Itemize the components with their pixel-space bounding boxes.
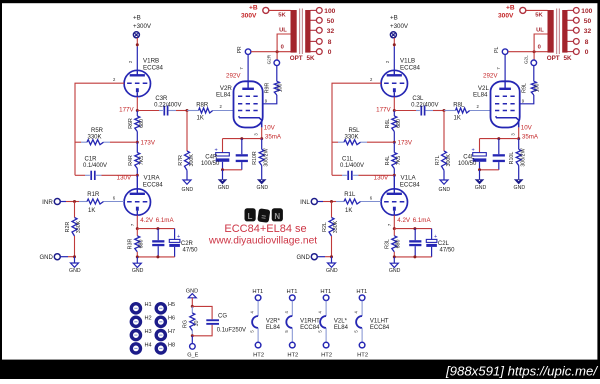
ground symbol (R10R)	[258, 180, 266, 184]
svg-text:INL: INL	[300, 199, 310, 206]
pentode V2L EL84	[491, 81, 520, 127]
svg-text:H2: H2	[145, 316, 152, 322]
ground symbol (R7L)	[440, 180, 448, 184]
svg-text:ECC84: ECC84	[143, 64, 164, 71]
logo square 2	[257, 208, 270, 223]
svg-text:300K: 300K	[189, 154, 195, 167]
ground terminal GND (R input)	[54, 254, 60, 260]
power terminal +B +300V (L channel)	[390, 32, 396, 38]
svg-text:35mA: 35mA	[265, 133, 282, 140]
svg-text:6.1mA: 6.1mA	[413, 217, 432, 224]
ground symbol (C4L)	[479, 170, 481, 180]
svg-text:R6R: R6R	[128, 118, 134, 129]
svg-text:R8R: R8R	[196, 102, 209, 108]
svg-text:0: 0	[585, 49, 589, 56]
svg-text:47/50: 47/50	[440, 248, 456, 254]
wire pentode cathode rail	[223, 138, 262, 140]
svg-text:GND: GND	[389, 268, 401, 274]
secondary taps	[568, 9, 574, 11]
svg-text:680: 680	[139, 119, 145, 128]
svg-text:V2L*: V2L*	[334, 318, 348, 324]
logo square 3	[272, 208, 283, 221]
svg-text:R7R: R7R	[178, 155, 184, 166]
wire pentode cathode rail	[480, 138, 519, 140]
junction RG bottom	[191, 334, 194, 337]
heater pad H2	[131, 317, 140, 326]
node V1RA cathode	[136, 227, 139, 230]
resistor RG 10	[191, 306, 193, 313]
resistor R9L 100	[533, 66, 535, 82]
svg-text:R10L: R10L	[509, 152, 515, 165]
resistor R1L 1K	[317, 201, 323, 203]
svg-text:173V: 173V	[398, 140, 413, 147]
svg-text:C3R: C3R	[155, 96, 168, 102]
svg-text:R1R: R1R	[87, 192, 100, 198]
svg-text:100: 100	[581, 8, 592, 15]
wire cathode RC top rail	[137, 228, 174, 230]
svg-text:680: 680	[396, 240, 402, 249]
svg-text:HT1: HT1	[252, 289, 263, 295]
svg-text:R3L: R3L	[385, 239, 391, 249]
svg-text:GND: GND	[39, 255, 53, 261]
wire +B to V1LB plate	[393, 38, 395, 47]
resistor R5L 330K	[332, 141, 338, 143]
svg-text:100/50: 100/50	[201, 161, 220, 167]
svg-text:R7L: R7L	[435, 155, 441, 165]
watermark bar	[0, 360, 600, 379]
wire plate to OPT 0 tap	[251, 51, 290, 53]
svg-text:0: 0	[281, 45, 284, 51]
svg-text:R4R: R4R	[128, 155, 134, 166]
svg-text:R5R: R5R	[91, 128, 104, 134]
svg-text:GND: GND	[69, 268, 81, 274]
svg-text:1K: 1K	[88, 208, 95, 214]
svg-text:H3: H3	[145, 329, 152, 335]
svg-text:C1L: C1L	[342, 156, 354, 162]
svg-text:1K: 1K	[345, 208, 352, 214]
wire V1LB grid to feedback node	[332, 83, 381, 175]
ground symbol (input)	[74, 257, 76, 263]
junction UL/0	[533, 50, 536, 53]
heater pad H6	[156, 317, 165, 326]
svg-text:HT2: HT2	[321, 352, 332, 358]
svg-text:+: +	[434, 234, 437, 240]
capacitor C4L 100/50 electrolytic	[473, 153, 487, 156]
svg-text:+: +	[215, 147, 218, 153]
junction C3L/R7L	[443, 109, 446, 112]
svg-text:330K: 330K	[87, 134, 101, 140]
svg-text:6.1mA: 6.1mA	[156, 217, 175, 224]
triode V1LB ECC84 (upper)	[381, 70, 407, 96]
svg-text:0.22/400V: 0.22/400V	[411, 102, 438, 108]
svg-text:GND: GND	[132, 268, 144, 274]
svg-text:10V: 10V	[264, 125, 276, 132]
transformer OPTR core	[299, 9, 301, 55]
svg-text:+300V: +300V	[133, 23, 152, 30]
svg-text:R9R: R9R	[265, 83, 271, 94]
heater pad H8	[156, 344, 165, 353]
logo square 1	[245, 208, 256, 221]
svg-text:H7: H7	[168, 329, 175, 335]
node 130V	[136, 174, 139, 177]
svg-text:R1L: R1L	[344, 192, 356, 198]
svg-text:GND: GND	[182, 187, 194, 193]
capacitor C4R film	[241, 139, 243, 155]
svg-text:+: +	[177, 234, 180, 240]
svg-text:GND: GND	[514, 185, 526, 191]
svg-text:R2L: R2L	[322, 222, 328, 232]
wire V1RB grid to feedback node	[75, 83, 124, 175]
wire plate to OPT 0 tap	[508, 51, 547, 53]
svg-text:ECC84+EL84 se: ECC84+EL84 se	[224, 223, 306, 235]
svg-text:32: 32	[327, 28, 335, 35]
junction input ground	[330, 255, 333, 258]
node 173V	[136, 141, 139, 144]
plate terminal PL	[504, 55, 506, 82]
svg-text:HT2: HT2	[357, 352, 368, 358]
wire +B to V1RB plate	[136, 38, 138, 47]
svg-text:10: 10	[194, 321, 200, 327]
heater pad H3	[131, 331, 140, 340]
svg-text:0.1/400V: 0.1/400V	[340, 163, 364, 169]
capacitor C2R film	[157, 229, 159, 241]
svg-text:0: 0	[538, 45, 541, 51]
svg-text:H4: H4	[145, 342, 152, 348]
junction RG top	[191, 305, 194, 308]
svg-text:OPT: OPT	[547, 55, 560, 62]
svg-text:8: 8	[328, 39, 332, 46]
svg-text:R5L: R5L	[348, 128, 360, 134]
pentode cathode node 10V 35mA	[518, 127, 520, 138]
svg-text:100/50: 100/50	[458, 161, 477, 167]
resistor R3R 680	[136, 229, 138, 236]
svg-text:0.1/400V: 0.1/400V	[83, 163, 107, 169]
screen terminal G2L	[531, 60, 537, 66]
resistor R5R 330K	[75, 141, 81, 143]
transformer OPTL primary winding	[548, 10, 554, 53]
border frame	[0, 0, 600, 3]
capacitor C1L 0.1/400V	[332, 174, 342, 176]
svg-text:RG: RG	[183, 320, 189, 328]
capacitor C4L film	[498, 139, 500, 155]
pentode V2R EL84	[234, 81, 263, 127]
input terminal INL	[311, 199, 317, 205]
transformer OPTL core	[556, 9, 558, 55]
resistor R3L 680	[393, 229, 395, 236]
svg-text:H5: H5	[168, 302, 175, 308]
svg-text:C2L: C2L	[438, 241, 450, 247]
wire heater gnd to RG	[191, 298, 193, 307]
junction +B	[393, 43, 396, 46]
node 173V	[393, 141, 396, 144]
resistor R10R 300/2W	[259, 149, 264, 165]
svg-text:177V: 177V	[376, 106, 391, 113]
capacitor C2L film	[414, 229, 416, 241]
svg-text:330K: 330K	[333, 220, 339, 233]
svg-text:R2R: R2R	[65, 222, 71, 233]
svg-text:HT2: HT2	[253, 352, 264, 358]
wire UL tap	[534, 34, 547, 60]
triode V1LA ECC84 (lower)	[393, 175, 395, 188]
svg-text:300/2W: 300/2W	[521, 148, 527, 166]
svg-text:G2R: G2R	[266, 54, 271, 64]
heater pad H7	[156, 331, 165, 340]
svg-text:0.1uF250V: 0.1uF250V	[217, 327, 246, 333]
power port +B 300V (R OPT)	[263, 7, 269, 13]
svg-text:C3L: C3L	[412, 96, 424, 102]
power terminal +B +300V (R channel)	[133, 32, 139, 38]
pentode cathode node 10V 35mA	[261, 127, 263, 138]
svg-text:100: 100	[277, 84, 283, 93]
ground symbol (R7R)	[183, 180, 191, 184]
svg-text:ECC84: ECC84	[143, 181, 164, 188]
junction +B	[136, 43, 139, 46]
heater pad H4	[131, 344, 140, 353]
wire V1RB cathode to 177V node	[136, 97, 138, 111]
svg-text:H1: H1	[145, 302, 152, 308]
svg-text:47/50: 47/50	[183, 248, 199, 254]
svg-text:ECC84: ECC84	[300, 325, 320, 331]
svg-text:R8L: R8L	[453, 102, 465, 108]
svg-text:C1R: C1R	[84, 156, 97, 162]
svg-text:INR: INR	[42, 199, 53, 206]
svg-text:+B: +B	[249, 5, 258, 12]
svg-text:UL: UL	[536, 28, 544, 34]
svg-text:4.2V: 4.2V	[140, 217, 154, 224]
svg-text:50: 50	[327, 18, 335, 25]
svg-text:EL84: EL84	[334, 325, 349, 331]
svg-text:GND: GND	[257, 185, 269, 191]
svg-text:R10R: R10R	[252, 151, 258, 165]
svg-text:7K5: 7K5	[139, 156, 145, 165]
svg-text:100: 100	[324, 8, 335, 15]
svg-text:GND: GND	[218, 185, 230, 191]
wire cathode RC bottom rail	[394, 256, 431, 258]
svg-text:32: 32	[584, 28, 592, 35]
secondary taps	[311, 9, 317, 11]
ground symbol (V1RA cathode)	[136, 257, 138, 263]
svg-text:177V: 177V	[119, 106, 134, 113]
svg-text:4.2V: 4.2V	[397, 217, 411, 224]
svg-text:292V: 292V	[483, 72, 498, 79]
svg-text:5K: 5K	[278, 12, 286, 18]
svg-text:CG: CG	[218, 314, 227, 320]
svg-text:EL84: EL84	[216, 92, 231, 99]
svg-text:HT2: HT2	[287, 352, 298, 358]
capacitor C3L 0.22/400V	[394, 110, 416, 112]
svg-text:10V: 10V	[521, 125, 533, 132]
svg-text:OPT: OPT	[290, 55, 303, 62]
svg-text:GND: GND	[439, 187, 451, 193]
svg-text:G2L: G2L	[523, 55, 528, 64]
svg-text:GND: GND	[296, 255, 310, 261]
resistor R6R 680	[136, 111, 138, 117]
ground symbol (C4R)	[222, 170, 224, 180]
svg-text:8: 8	[585, 39, 589, 46]
wire cathode bottom rail	[480, 169, 499, 171]
resistor R7L 300K	[443, 111, 445, 152]
svg-text:680: 680	[139, 240, 145, 249]
junction C3R/R7R	[186, 109, 189, 112]
node V1LA cathode	[393, 227, 396, 230]
svg-text:EL84: EL84	[473, 92, 488, 99]
ground symbol (R10L)	[515, 180, 523, 184]
node 130V	[393, 174, 396, 177]
wire cathode RC bottom rail	[137, 256, 174, 258]
wire +B to OPT 5K tap	[269, 9, 291, 11]
terminal G_E	[191, 336, 193, 344]
svg-text:GND: GND	[475, 185, 487, 191]
wire V1RA cathode	[136, 215, 138, 228]
resistor R2L 330K	[331, 202, 333, 218]
transformer OPTR secondary winding	[305, 10, 310, 53]
junction UL/0	[276, 50, 279, 53]
svg-text:R9L: R9L	[522, 83, 528, 93]
svg-text:ECC84: ECC84	[400, 181, 421, 188]
ground symbol (V1LA cathode)	[393, 257, 395, 263]
svg-text:300K: 300K	[446, 154, 452, 167]
svg-text:V1LHT: V1LHT	[370, 318, 389, 324]
junction input	[330, 200, 333, 203]
svg-text:5K: 5K	[564, 55, 573, 62]
svg-text:PR: PR	[237, 46, 243, 53]
svg-text:G_E: G_E	[187, 352, 198, 358]
svg-text:300V: 300V	[241, 13, 257, 20]
plate terminal PR	[247, 55, 249, 82]
svg-text:HT1: HT1	[356, 289, 367, 295]
triode V1RB ECC84 (upper)	[124, 70, 150, 96]
capacitor C4R 100/50 electrolytic	[216, 153, 230, 156]
svg-text:5K: 5K	[535, 12, 543, 18]
resistor R6L 680	[393, 111, 395, 117]
svg-text:0: 0	[328, 49, 332, 56]
wire cathode RC top rail	[394, 228, 431, 230]
svg-text:+B: +B	[506, 5, 515, 12]
wire cathode bottom rail	[223, 169, 242, 171]
heater pad H1	[131, 304, 140, 313]
svg-text:7K5: 7K5	[396, 156, 402, 165]
capacitor CG 0.1uF250V	[192, 306, 212, 319]
transformer OPTR primary winding	[291, 10, 297, 53]
heater pad H5	[156, 304, 165, 313]
resistor R4L 7K5	[393, 142, 395, 152]
svg-text:www.diyaudiovillage.net: www.diyaudiovillage.net	[208, 236, 317, 247]
resistor R1R 1K	[60, 201, 66, 203]
svg-text:300/2W: 300/2W	[264, 148, 270, 166]
node 177V	[393, 109, 396, 112]
resistor R8L 1K	[456, 108, 470, 113]
resistor R2R 330K	[74, 202, 76, 218]
wire V1LA cathode	[393, 215, 395, 228]
node 177V	[136, 109, 139, 112]
svg-text:[988x591] https://upic.me/: [988x591] https://upic.me/	[445, 363, 598, 378]
svg-text:PL: PL	[494, 47, 500, 53]
resistor R7R 300K	[186, 111, 188, 152]
svg-text:V1RHT: V1RHT	[300, 318, 320, 324]
triode V1RA ECC84 (lower)	[136, 175, 138, 188]
svg-text:V2R*: V2R*	[266, 318, 281, 324]
svg-text:173V: 173V	[141, 140, 156, 147]
svg-text:330K: 330K	[344, 134, 358, 140]
svg-text:H8: H8	[168, 342, 175, 348]
svg-text:R6L: R6L	[385, 119, 391, 129]
capacitor C1R 0.1/400V	[75, 174, 85, 176]
resistor R4R 7K5	[136, 142, 138, 152]
capacitor C2L 47/50 electrolytic	[431, 229, 433, 240]
svg-text:330K: 330K	[76, 220, 82, 233]
svg-text:ECC84: ECC84	[400, 64, 421, 71]
svg-text:300V: 300V	[498, 13, 514, 20]
svg-text:EL84: EL84	[266, 325, 281, 331]
svg-text:GND: GND	[326, 268, 338, 274]
svg-text:1K: 1K	[197, 116, 204, 122]
power port +B 300V (L OPT)	[520, 7, 526, 13]
svg-text:+B: +B	[390, 14, 398, 21]
svg-text:680: 680	[396, 119, 402, 128]
svg-text:C2R: C2R	[181, 241, 194, 247]
svg-text:HT1: HT1	[320, 289, 331, 295]
svg-text:R3R: R3R	[128, 239, 134, 250]
svg-text:L: L	[248, 212, 253, 221]
svg-text:ECC84: ECC84	[370, 325, 390, 331]
svg-text:C4L: C4L	[463, 154, 475, 160]
svg-text:1K: 1K	[454, 116, 461, 122]
junction input ground	[73, 255, 76, 258]
capacitor C3R 0.22/400V	[137, 110, 159, 112]
resistor R8R 1K	[199, 108, 213, 113]
svg-text:HT1: HT1	[287, 289, 298, 295]
svg-text:+B: +B	[133, 14, 141, 21]
wire UL tap	[277, 34, 290, 60]
svg-text:UL: UL	[279, 28, 287, 34]
wire +B to OPT 5K tap	[526, 9, 548, 11]
svg-text:292V: 292V	[226, 72, 241, 79]
svg-text:35mA: 35mA	[522, 133, 539, 140]
svg-text:+300V: +300V	[390, 23, 409, 30]
svg-text:0.22/400V: 0.22/400V	[154, 102, 181, 108]
svg-text:5K: 5K	[307, 55, 316, 62]
capacitor C2R 47/50 electrolytic	[174, 229, 176, 240]
transformer OPTL secondary winding	[562, 10, 567, 53]
svg-text:C4R: C4R	[205, 154, 218, 160]
svg-text:50: 50	[584, 18, 592, 25]
resistor R10L 300/2W	[516, 149, 521, 165]
screen terminal G2R	[274, 60, 280, 66]
wire V1LB cathode to 177V node	[393, 97, 395, 111]
svg-text:+: +	[472, 147, 475, 153]
resistor R9R 100	[276, 66, 278, 82]
input terminal INR	[54, 199, 60, 205]
junction input	[73, 200, 76, 203]
svg-text:100: 100	[534, 84, 540, 93]
svg-text:R4L: R4L	[385, 156, 391, 166]
ground terminal GND (L input)	[311, 254, 317, 260]
ground symbol (input)	[331, 257, 333, 263]
svg-text:N: N	[274, 212, 280, 221]
svg-text:H6: H6	[168, 316, 175, 322]
